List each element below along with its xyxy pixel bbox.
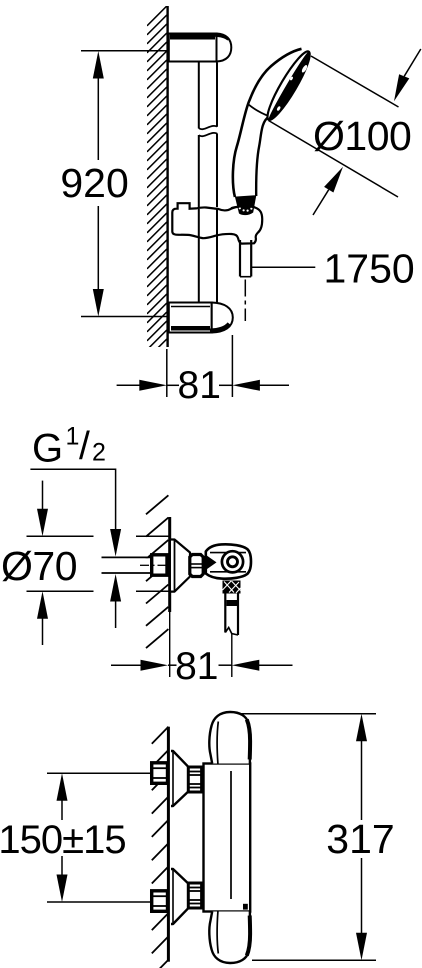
bottom wall line: [167, 727, 170, 962]
label G 1/2: [32, 423, 106, 471]
knurled nut below body: [223, 581, 241, 594]
middle wall line: [168, 517, 171, 612]
dimension Ø70 bottom extension line: [27, 590, 94, 592]
shower head spray band: [268, 52, 309, 120]
dimension Ø100 lower arrow: [313, 167, 343, 215]
dimension 81 (top) right extension line: [231, 335, 233, 397]
valve body: [206, 544, 251, 578]
svg-text:317: 317: [326, 816, 394, 862]
svg-text:150±15: 150±15: [0, 818, 126, 862]
bottom S-union connector (bottom section): [188, 883, 201, 908]
svg-text:81: 81: [175, 645, 218, 688]
hose centerline (dash-dot): [244, 280, 246, 322]
dimension 920 bottom extension line: [81, 316, 168, 318]
wall line (top section): [166, 6, 168, 347]
dimension 150±15 arrows: [57, 773, 68, 902]
dimension 920 line with arrows: [93, 51, 104, 317]
hand shower inner curve: [256, 116, 269, 196]
top S-union connector (bottom section): [188, 767, 201, 792]
dimension 81 (top) left extension line: [166, 349, 168, 397]
svg-text:Ø100: Ø100: [313, 113, 411, 159]
rail bottom bracket: [169, 303, 233, 333]
dimension Ø70 arrows: [37, 481, 48, 645]
dimension 81 (middle) arrows: [111, 660, 293, 671]
dimension Ø100 lower extension line: [269, 121, 399, 198]
wall hatching (top section): [147, 6, 167, 386]
union nut (G 1/2): [152, 555, 167, 575]
hose connector below holder: [240, 240, 251, 277]
dimension Ø100 upper arrow: [394, 49, 421, 101]
dimension 81 (middle) left extension line: [169, 612, 171, 677]
dimension Ø70 top extension line: [27, 535, 94, 537]
G 1/2 leader line: [30, 469, 115, 531]
bottom escutcheon (bottom section): [171, 869, 188, 924]
dimension 317 bottom extension line: [252, 959, 376, 961]
thermostat body: [204, 764, 251, 912]
shower head face (ellipse): [262, 48, 315, 124]
leader line to 1750: [251, 266, 315, 268]
svg-text:2: 2: [92, 439, 106, 467]
svg-text:/: /: [79, 425, 90, 468]
top escutcheon (bottom section): [171, 751, 188, 806]
dimension 920 top extension line: [81, 50, 168, 52]
wall rail (vertical tube with break): [199, 63, 217, 303]
bottom wall hatching: [152, 727, 169, 744]
hand shower cone end (dark) in holder: [235, 195, 256, 215]
hand shower neck line: [249, 105, 270, 117]
top cap / handle: [209, 712, 250, 764]
G 1/2 up arrow with tail: [110, 574, 121, 628]
dimension 150±15 bottom extension line: [47, 901, 152, 903]
bottom inlet union nut (bottom section): [152, 891, 168, 912]
middle wall hatching: [146, 495, 168, 514]
glide holder on rail: [172, 203, 262, 243]
supply pipe through wall: [102, 557, 152, 573]
bottom cap: [209, 912, 250, 964]
dimension 317 line with arrows: [356, 714, 367, 961]
svg-text:Ø70: Ø70: [1, 543, 77, 589]
spray band white notches: [301, 64, 308, 73]
valve inlet hex connector: [190, 555, 203, 577]
svg-text:G: G: [32, 427, 63, 471]
escutcheon (middle): [171, 540, 190, 592]
svg-text:920: 920: [60, 160, 128, 206]
outlet pipe below valve: [225, 594, 238, 636]
svg-text:1750: 1750: [323, 245, 414, 291]
rail top bracket: [169, 34, 232, 62]
dimension 81 (middle) right extension line: [231, 634, 233, 677]
G 1/2 down arrow: [110, 529, 121, 557]
svg-text:81: 81: [178, 364, 221, 407]
top inlet union nut (bottom section): [152, 763, 168, 784]
hand shower outer curve: [233, 49, 302, 197]
svg-text:1: 1: [66, 423, 80, 451]
nut centerline dash-dot: [140, 564, 166, 566]
dimension 150±15 top extension line: [47, 772, 152, 774]
dimension 317 top extension line: [241, 713, 376, 715]
dimension 81 (top) arrows: [117, 380, 289, 391]
dimension Ø100 upper extension line: [311, 56, 399, 107]
